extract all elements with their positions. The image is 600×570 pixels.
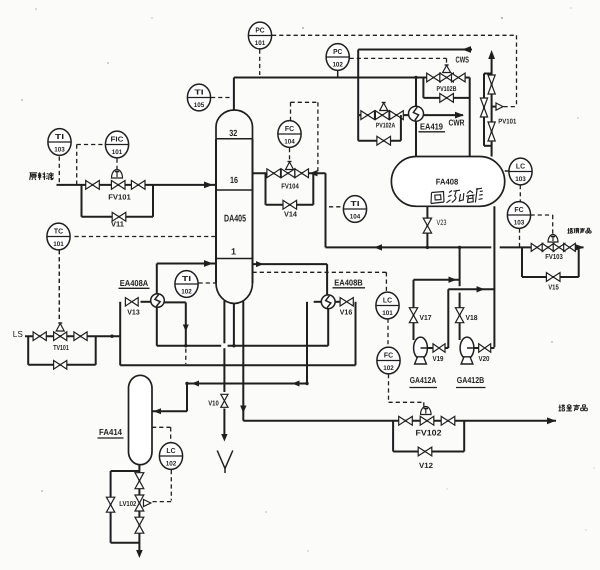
svg-text:LV102: LV102 — [119, 499, 136, 508]
svg-text:102: 102 — [332, 61, 343, 68]
svg-text:TI: TI — [182, 274, 191, 283]
svg-text:V16: V16 — [340, 308, 353, 317]
svg-text:FIC: FIC — [111, 135, 124, 144]
svg-text:LC: LC — [166, 446, 175, 455]
svg-text:V23: V23 — [437, 218, 447, 227]
svg-text:101: 101 — [53, 241, 64, 248]
svg-text:FV103: FV103 — [545, 252, 563, 261]
svg-text:TC: TC — [54, 227, 63, 236]
svg-text:105: 105 — [194, 102, 205, 109]
svg-text:EA408B: EA408B — [334, 278, 363, 288]
svg-text:V12: V12 — [419, 461, 433, 470]
svg-text:FV101: FV101 — [108, 193, 131, 202]
svg-text:GA412B: GA412B — [457, 375, 485, 385]
svg-text:101: 101 — [255, 40, 266, 47]
svg-text:TV101: TV101 — [53, 343, 69, 352]
svg-text:PC: PC — [333, 47, 342, 56]
svg-text:LS: LS — [13, 329, 23, 339]
svg-text:32: 32 — [229, 128, 237, 138]
svg-text:DA405: DA405 — [224, 214, 246, 225]
svg-text:TI: TI — [194, 88, 203, 97]
svg-text:102: 102 — [181, 288, 192, 295]
svg-text:PV102A: PV102A — [376, 123, 396, 130]
svg-text:TI: TI — [350, 199, 359, 208]
svg-text:103: 103 — [514, 219, 525, 226]
svg-text:102: 102 — [383, 365, 394, 372]
svg-text:CWR: CWR — [449, 118, 466, 128]
svg-text:FC: FC — [514, 205, 523, 214]
svg-text:102: 102 — [166, 460, 177, 467]
svg-text:TI: TI — [55, 132, 64, 141]
svg-text:V13: V13 — [127, 308, 140, 317]
svg-text:CWS: CWS — [456, 55, 470, 65]
svg-text:FA408: FA408 — [436, 177, 459, 187]
svg-text:V14: V14 — [284, 210, 297, 219]
svg-text:GA412A: GA412A — [410, 375, 437, 385]
svg-text:V11: V11 — [111, 220, 124, 229]
svg-text:LC: LC — [383, 296, 392, 305]
svg-text:EA419: EA419 — [420, 122, 443, 132]
svg-text:104: 104 — [350, 213, 361, 220]
svg-text:103: 103 — [515, 176, 526, 183]
svg-text:101: 101 — [382, 310, 393, 317]
svg-text:103: 103 — [54, 146, 65, 153]
svg-text:101: 101 — [112, 149, 123, 156]
svg-text:V20: V20 — [479, 354, 490, 363]
svg-text:V17: V17 — [420, 313, 432, 322]
svg-text:16: 16 — [230, 175, 238, 185]
svg-text:V19: V19 — [433, 354, 444, 363]
svg-text:LC: LC — [516, 162, 525, 171]
svg-text:FC: FC — [285, 124, 294, 133]
svg-text:FV104: FV104 — [281, 182, 299, 191]
svg-text:EA408A: EA408A — [120, 278, 149, 288]
svg-text:FC: FC — [384, 351, 393, 360]
svg-text:V18: V18 — [466, 313, 478, 322]
svg-text:V15: V15 — [548, 283, 559, 292]
svg-text:FV102: FV102 — [416, 429, 442, 438]
svg-text:1: 1 — [231, 247, 236, 257]
svg-text:PV102B: PV102B — [437, 86, 457, 93]
svg-text:V10: V10 — [208, 399, 219, 408]
svg-text:PC: PC — [255, 26, 264, 35]
svg-text:PV101: PV101 — [498, 119, 516, 126]
svg-text:FA414: FA414 — [99, 427, 122, 437]
svg-text:104: 104 — [284, 138, 295, 145]
